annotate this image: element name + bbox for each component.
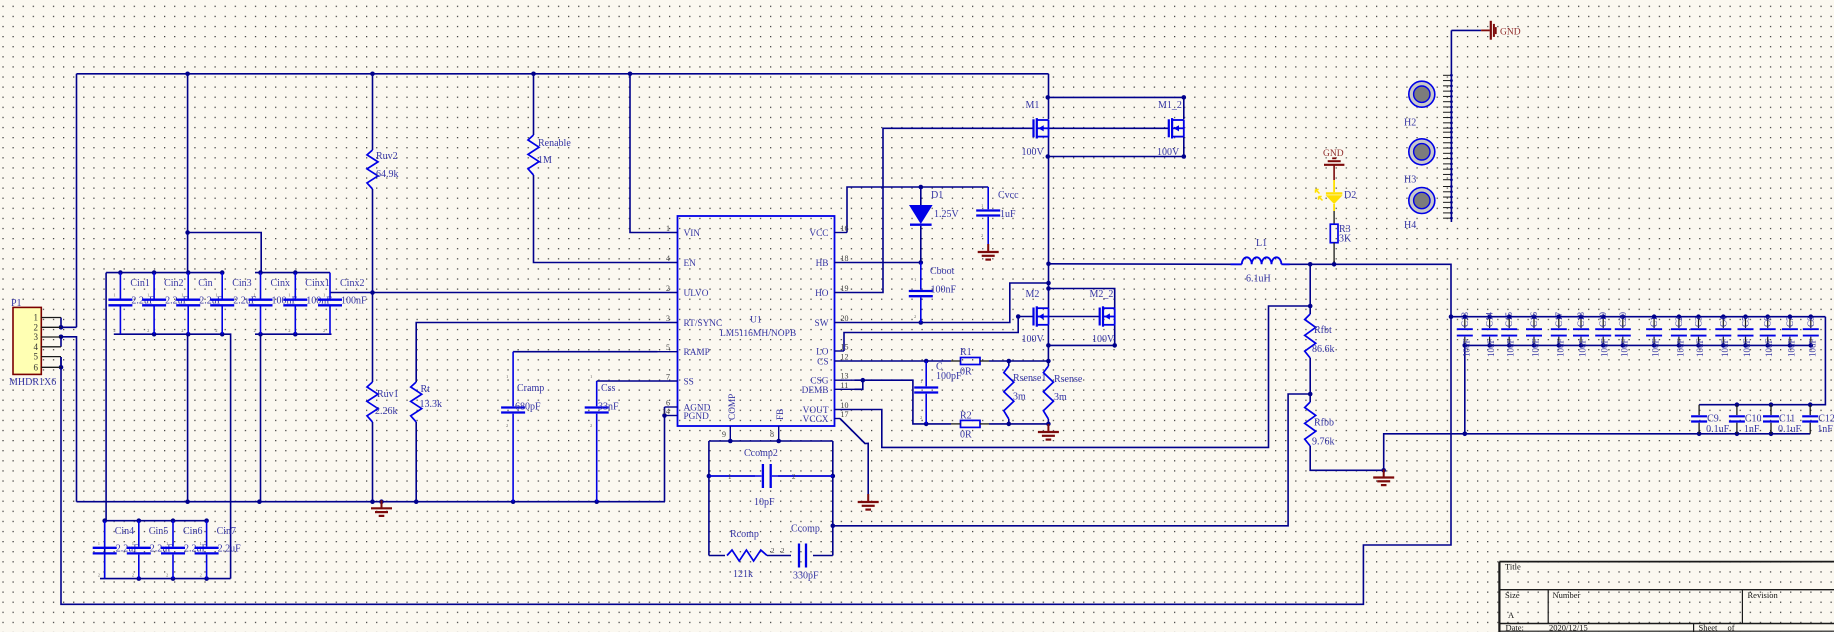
capacitor Cvcc: [987, 187, 989, 209]
svg-text:10uF: 10uF: [1764, 338, 1774, 357]
junction: [258, 332, 263, 337]
svg-text:Cinx1: Cinx1: [305, 278, 329, 289]
wire M1 source to SW node: [1048, 137, 1050, 264]
svg-text:10: 10: [841, 401, 849, 410]
pin 18 HB: [835, 262, 855, 264]
svg-text:C6: C6: [1763, 316, 1773, 327]
svg-text:10uF: 10uF: [1486, 338, 1496, 357]
ground symbol VCCX: [867, 494, 869, 502]
svg-text:Rsense1: Rsense1: [1013, 373, 1046, 384]
svg-text:L1: L1: [1256, 238, 1267, 249]
junction: [662, 413, 667, 418]
pin 15 LO: [835, 350, 845, 352]
junction: [707, 474, 712, 479]
svg-text:0.1uF: 0.1uF: [1706, 424, 1730, 435]
junction: [137, 576, 142, 581]
junction: [59, 325, 64, 330]
svg-text:100nF: 100nF: [931, 285, 957, 296]
pin 19 HO: [835, 292, 855, 294]
capacitor C20: [1622, 317, 1624, 328]
svg-text:1.25V: 1.25V: [934, 209, 960, 220]
junction: [370, 290, 375, 295]
capacitor C18: [1580, 317, 1582, 328]
junction: [1046, 343, 1051, 348]
capacitor Cin5: [138, 521, 140, 547]
capacitor C16: [1533, 317, 1535, 328]
svg-text:10uF: 10uF: [1600, 338, 1610, 357]
svg-text:Ccomp2: Ccomp2: [744, 448, 778, 459]
junction: [1046, 262, 1051, 267]
LED D2: [1333, 180, 1335, 192]
svg-text:C1: C1: [1649, 316, 1659, 327]
IC U1 LM5116: [678, 216, 835, 426]
capacitor Cin1: [119, 273, 121, 299]
svg-text:C17: C17: [1554, 311, 1564, 327]
svg-text:1: 1: [666, 224, 670, 233]
svg-text:Title: Title: [1505, 562, 1521, 572]
capacitor C2: [1678, 317, 1680, 328]
junction: [1463, 343, 1468, 348]
svg-text:10pF: 10pF: [754, 497, 775, 508]
wire gate bus M1 to M1_2: [1049, 127, 1169, 129]
svg-text:PGND: PGND: [684, 412, 710, 422]
svg-text:2: 2: [215, 328, 217, 333]
wire RT/SYNC run: [416, 323, 657, 383]
svg-text:2: 2: [181, 328, 183, 333]
svg-text:8: 8: [770, 430, 774, 439]
capacitor Css: [596, 381, 598, 406]
junction: [1308, 304, 1313, 309]
svg-text:HB: HB: [816, 259, 829, 269]
wire Rsense bottom leads: [1047, 419, 1049, 425]
svg-text:1: 1: [981, 203, 983, 208]
capacitor Cin7: [206, 521, 208, 547]
junction: [1046, 95, 1051, 100]
wire output drop to fb divider: [1309, 264, 1311, 314]
wire M2_2 source return: [1048, 325, 1114, 346]
pin 3 RT/SYNC: [658, 322, 678, 324]
pin 2 ULVO: [658, 292, 678, 294]
wire GND power port top right: [1451, 29, 1481, 31]
resistor Rfbt: [1305, 314, 1316, 358]
svg-text:12: 12: [841, 353, 849, 362]
svg-text:64.9k: 64.9k: [376, 169, 399, 180]
capacitor C8: [1810, 317, 1812, 328]
wire SS run: [597, 380, 658, 382]
junction: [919, 260, 924, 265]
svg-text:C13: C13: [1460, 311, 1470, 327]
wire SW run: [855, 283, 1049, 323]
svg-text:33nF: 33nF: [598, 402, 619, 413]
capacitor C3: [1698, 317, 1700, 328]
junction: [1308, 392, 1313, 397]
junction: [924, 422, 929, 427]
junction: [924, 359, 929, 364]
capacitor Cinx1: [294, 273, 296, 299]
capacitor C14: [1489, 317, 1491, 328]
junction: [185, 499, 190, 504]
svg-text:100V: 100V: [1022, 147, 1045, 158]
svg-text:ULVO: ULVO: [684, 289, 709, 299]
svg-text:7: 7: [666, 373, 670, 382]
svg-text:5: 5: [666, 343, 670, 352]
pin 8 FB: [778, 426, 780, 441]
resistor R1: [961, 358, 981, 365]
junction: [628, 72, 633, 77]
svg-text:2: 2: [920, 415, 922, 420]
svg-text:2: 2: [792, 473, 796, 481]
svg-text:P1: P1: [11, 298, 22, 309]
junction: [1046, 281, 1051, 286]
svg-text:2: 2: [288, 328, 290, 333]
svg-text:Cin2: Cin2: [164, 278, 183, 289]
svg-text:D1: D1: [931, 190, 943, 201]
svg-text:2: 2: [771, 547, 775, 555]
junction: [1697, 432, 1702, 437]
wire Renable column: [533, 74, 535, 135]
svg-text:Cvcc: Cvcc: [998, 190, 1019, 201]
svg-text:10uF: 10uF: [1619, 338, 1629, 357]
svg-text:R1: R1: [960, 347, 972, 358]
svg-text:19: 19: [841, 284, 849, 293]
svg-text:2: 2: [254, 328, 256, 333]
wire HB to Cboot / D1 node: [855, 262, 921, 264]
svg-text:2: 2: [200, 573, 202, 578]
junction: [1046, 286, 1051, 291]
svg-text:15: 15: [841, 343, 849, 352]
svg-text:10uF: 10uF: [1807, 338, 1817, 357]
svg-text:Rcomp: Rcomp: [730, 529, 759, 540]
svg-text:100nF: 100nF: [341, 296, 367, 307]
svg-text:2: 2: [113, 328, 115, 333]
svg-text:1nF: 1nF: [1744, 424, 1760, 435]
junction: [293, 270, 298, 275]
wire D2/R3 branch junctions: [1333, 261, 1335, 264]
svg-text:9.76k: 9.76k: [1312, 437, 1335, 448]
ground symbol Cvcc: [987, 244, 989, 252]
junction: [1182, 95, 1187, 100]
transistor M2_2: [1099, 308, 1101, 326]
junction: [102, 518, 107, 523]
svg-text:10uF: 10uF: [1742, 338, 1752, 357]
svg-text:1: 1: [728, 473, 732, 481]
svg-text:10uF: 10uF: [1675, 338, 1685, 357]
svg-text:C18: C18: [1576, 311, 1586, 327]
junction: [728, 439, 733, 444]
wire Cin4 feed: [105, 273, 107, 521]
wire input cap top rail: [106, 272, 223, 274]
pin 10 VOUT: [835, 409, 855, 411]
svg-text:3m: 3m: [1054, 392, 1067, 403]
transistor M1: [1032, 119, 1034, 137]
svg-text:Rfbt: Rfbt: [1314, 325, 1332, 336]
svg-text:C7: C7: [1785, 316, 1795, 327]
svg-text:10uF: 10uF: [1531, 338, 1541, 357]
mounting hole H4: [1409, 188, 1435, 214]
svg-text:Cin: Cin: [198, 278, 212, 289]
wire output to cap bank top rail: [1451, 316, 1825, 318]
wire Ruv divider column: [372, 74, 374, 150]
svg-text:Ccomp: Ccomp: [791, 524, 820, 535]
capacitor C19: [1602, 317, 1604, 328]
wire Rfbb to ground: [1310, 446, 1384, 470]
junction: [59, 335, 64, 340]
svg-text:2: 2: [147, 328, 149, 333]
svg-text:Renable: Renable: [538, 138, 571, 149]
wire P1 pin5-6 tie: [60, 357, 62, 367]
svg-text:1: 1: [914, 277, 916, 282]
svg-text:GND: GND: [1500, 28, 1521, 38]
capacitor Cin6: [172, 521, 174, 547]
junction: [1182, 154, 1187, 159]
junction: [511, 499, 516, 504]
wire M1/M1_2 drain rail: [1048, 97, 1184, 119]
svg-text:3: 3: [666, 314, 670, 323]
junction: [531, 72, 536, 77]
svg-text:2: 2: [98, 573, 100, 578]
svg-text:C3: C3: [1694, 316, 1704, 327]
svg-text:17: 17: [841, 410, 849, 419]
svg-text:1: 1: [132, 541, 134, 546]
svg-text:10uF: 10uF: [1720, 338, 1730, 357]
junction: [370, 72, 375, 77]
junction: [152, 270, 157, 275]
svg-text:Cin3: Cin3: [232, 278, 251, 289]
svg-text:2: 2: [981, 233, 983, 238]
svg-text:Cin1: Cin1: [130, 278, 149, 289]
svg-text:U1: U1: [750, 316, 762, 326]
pin 16 VCC: [835, 232, 848, 234]
pin 9 COMP: [729, 426, 731, 441]
svg-text:Cin4: Cin4: [115, 526, 134, 537]
svg-text:VIN: VIN: [684, 229, 701, 239]
svg-text:LM5116MH/NOPB: LM5116MH/NOPB: [720, 329, 796, 339]
junction: [293, 332, 298, 337]
wire SW node down M2 drain: [1048, 264, 1050, 308]
junction: [258, 270, 263, 275]
mounting hole H3: [1409, 139, 1435, 165]
svg-text:100V: 100V: [1092, 334, 1115, 345]
svg-text:330pF: 330pF: [793, 571, 819, 582]
svg-text:1: 1: [113, 293, 115, 298]
junction: [59, 365, 64, 370]
svg-text:5: 5: [34, 352, 39, 362]
inductor L1: [1231, 263, 1242, 265]
junction: [919, 185, 924, 190]
junction: [1046, 359, 1051, 364]
svg-text:Css: Css: [601, 383, 616, 394]
resistor Rfbb: [1305, 402, 1316, 446]
capacitor C17: [1558, 317, 1560, 328]
junction: [1735, 402, 1740, 407]
svg-text:1: 1: [506, 374, 508, 379]
junction: [171, 576, 176, 581]
svg-text:2: 2: [914, 314, 916, 319]
wire Cin4 block rails: [105, 520, 209, 522]
svg-text:11: 11: [841, 381, 849, 390]
svg-text:2: 2: [166, 573, 168, 578]
wire gate bus M2 to M2_2: [1049, 316, 1100, 318]
wire HO gate feed: [855, 128, 1034, 292]
junction: [776, 439, 781, 444]
svg-text:H2: H2: [1404, 118, 1416, 129]
svg-text:16: 16: [841, 224, 849, 233]
wire M2 source / sense column: [1047, 325, 1049, 366]
svg-text:680pF: 680pF: [515, 402, 541, 413]
svg-text:SS: SS: [684, 378, 694, 388]
svg-text:86.6k: 86.6k: [1312, 344, 1335, 355]
wire M2_2 drain branch: [1049, 289, 1115, 309]
wire VIN drop to input caps: [187, 74, 189, 273]
svg-text:14: 14: [662, 407, 670, 416]
junction: [171, 518, 176, 523]
junction: [831, 524, 836, 529]
svg-text:C4: C4: [1718, 316, 1728, 327]
ground symbol left rail: [381, 500, 383, 508]
svg-text:9: 9: [722, 430, 726, 439]
svg-text:M2_2: M2_2: [1090, 289, 1114, 300]
capacitor C7: [1789, 317, 1791, 328]
pin 1 VIN: [658, 232, 678, 234]
wire P1 pin3-4 tie: [60, 337, 62, 347]
svg-text:Cin6: Cin6: [183, 526, 202, 537]
svg-text:2: 2: [323, 328, 325, 333]
junction: [919, 320, 924, 325]
wire fb node: [1309, 358, 1311, 402]
svg-text:1: 1: [166, 541, 168, 546]
junction: [220, 332, 225, 337]
wire output node down to load connector rail: [61, 317, 1451, 605]
svg-text:2: 2: [781, 547, 785, 555]
svg-text:R2: R2: [960, 411, 972, 422]
svg-text:3m: 3m: [1013, 392, 1026, 403]
capacitor Ccomp: [798, 544, 800, 568]
wire RAMP run: [513, 351, 657, 353]
wire VCCX diagonal to gnd: [840, 419, 868, 495]
resistor Renable: [528, 135, 539, 175]
capacitor Cboot: [920, 263, 922, 290]
svg-text:10uF: 10uF: [1555, 338, 1565, 357]
svg-text:100V: 100V: [1022, 334, 1045, 345]
svg-text:2: 2: [590, 423, 592, 428]
svg-text:1: 1: [590, 374, 592, 379]
junction: [1808, 402, 1813, 407]
pin 11 DEMB: [835, 388, 855, 390]
wire VIN left drop to P1 pin2: [76, 74, 78, 327]
junction: [414, 499, 419, 504]
junction: [1046, 422, 1051, 427]
svg-text:2: 2: [132, 573, 134, 578]
svg-text:EN: EN: [684, 259, 697, 269]
capacitor C6: [1767, 317, 1769, 328]
junction: [185, 230, 190, 235]
wire VIN branch to Cinx caps: [188, 233, 262, 273]
svg-text:3K: 3K: [1339, 234, 1352, 245]
svg-text:Cinx: Cinx: [271, 278, 290, 289]
resistor Rsense: [1043, 366, 1053, 419]
capacitor Cinx2: [329, 273, 331, 299]
svg-text:H3: H3: [1404, 175, 1416, 186]
wire VIN drop to pin VIN: [630, 74, 658, 233]
svg-text:M1_2: M1_2: [1158, 100, 1182, 111]
svg-text:Size: Size: [1505, 590, 1520, 600]
title block: [1499, 561, 1834, 563]
capacitor C10: [1736, 405, 1738, 415]
pin 20 SW: [835, 322, 855, 324]
svg-text:1: 1: [323, 293, 325, 298]
svg-text:3: 3: [34, 332, 39, 342]
svg-text:C20: C20: [1618, 311, 1628, 327]
svg-text:10uF: 10uF: [1695, 338, 1705, 357]
wire output gnd return riser: [1384, 434, 1811, 471]
svg-text:Cin7: Cin7: [217, 526, 236, 537]
svg-text:C14: C14: [1485, 311, 1495, 327]
junction: [831, 474, 836, 479]
svg-text:Number: Number: [1553, 590, 1581, 600]
svg-text:VCCX: VCCX: [803, 415, 829, 425]
svg-text:10uF: 10uF: [1578, 338, 1588, 357]
ground symbol output: [1383, 470, 1385, 478]
junction: [1735, 432, 1740, 437]
capacitor Cin4: [104, 521, 106, 547]
junction: [152, 332, 157, 337]
wire cap bank gnd riser: [1464, 345, 1466, 433]
svg-text:1: 1: [288, 293, 290, 298]
wire CS run: [855, 360, 952, 362]
svg-text:0R: 0R: [960, 430, 972, 441]
junction: [118, 270, 123, 275]
diode D1 bootstrap: [920, 187, 922, 205]
svg-text:6.1uH: 6.1uH: [1246, 274, 1271, 285]
svg-text:C2: C2: [1674, 316, 1684, 327]
wire Cin gnd drops: [187, 334, 189, 502]
svg-text:DEMB: DEMB: [802, 386, 829, 396]
resistor R2: [961, 420, 981, 427]
svg-text:H4: H4: [1404, 220, 1416, 231]
junction: [186, 270, 191, 275]
svg-text:10uF: 10uF: [1506, 338, 1516, 357]
pin 12 CS: [835, 360, 855, 362]
svg-text:C16: C16: [1529, 311, 1539, 327]
junction: [1381, 468, 1386, 473]
svg-text:SW: SW: [815, 319, 829, 329]
svg-text:Cin5: Cin5: [149, 526, 168, 537]
transistor M2: [1032, 308, 1034, 326]
junction: [204, 518, 209, 523]
svg-text:1: 1: [98, 541, 100, 546]
junction: [1769, 402, 1774, 407]
wire VIN top rail: [77, 73, 1049, 75]
svg-text:0R: 0R: [960, 367, 972, 378]
svg-text:1: 1: [215, 293, 217, 298]
junction: [186, 332, 191, 337]
capacitor Cin: [187, 273, 189, 299]
pin 13 CSG: [835, 379, 855, 381]
resistor Rsense1: [1004, 366, 1014, 419]
svg-text:Rsense: Rsense: [1054, 374, 1083, 385]
pin 6 AGND: [665, 406, 678, 408]
junction: [137, 518, 142, 523]
svg-text:13.3k: 13.3k: [420, 399, 443, 410]
pin 7 SS: [658, 380, 678, 382]
capacitor C15: [1508, 317, 1510, 328]
svg-text:C5: C5: [1741, 316, 1751, 327]
svg-text:2.26k: 2.26k: [375, 406, 398, 417]
svg-text:4: 4: [666, 254, 670, 263]
wire VIN drop to M1 drain: [1048, 74, 1050, 120]
capacitor C5: [1745, 317, 1747, 328]
svg-text:Ruv2: Ruv2: [376, 151, 398, 162]
